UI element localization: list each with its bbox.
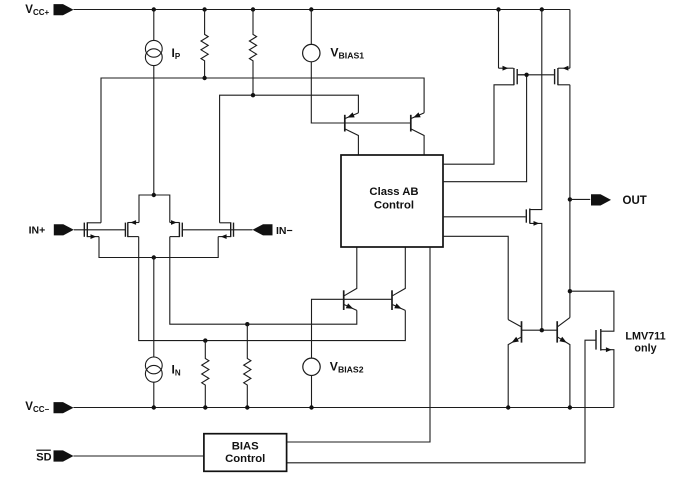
label BIAS Control [225, 440, 265, 465]
terminal VCC- [54, 402, 74, 413]
svg-text:BIAS: BIAS [232, 440, 259, 452]
svg-text:Control: Control [374, 199, 414, 211]
block Class AB Control [341, 155, 443, 247]
junction VCC- rail / Q6 emitter [568, 405, 572, 409]
junction P tail / IP [152, 193, 156, 197]
junction VCC+ rail / VBIAS1 [309, 7, 313, 11]
wire IN+ gate [74, 229, 126, 231]
wire node N4 (B drain / R3 / Q4 emitter) [139, 237, 406, 341]
terminal IN- [253, 224, 273, 235]
junction Q5/Q6 bases / M5 source [540, 328, 544, 332]
terminal OUT [591, 194, 611, 205]
mosfet M5 (floating buffer) [443, 10, 542, 331]
svg-text:Class AB: Class AB [369, 186, 418, 198]
wire gates to Class AB (port B) [443, 75, 527, 182]
wire OUT stub [570, 198, 590, 200]
terminal VCC+ [54, 4, 74, 15]
wire node N2 (D drain / R2 / Q1 emitter) [220, 95, 359, 223]
transistor Q2 (PNP) [411, 112, 424, 155]
junction N1 / R1 [202, 76, 206, 80]
wire M1/M2 gate line [517, 74, 554, 76]
mosfet C (IN- inner) [170, 220, 183, 237]
wire node N1 (A drain / R1 / Q2 emitter) [101, 78, 424, 223]
transistor Q4 (NPN) [392, 246, 405, 310]
mosfet B (IN+ inner) [125, 220, 139, 237]
junction VCC+ rail / M5 drain [540, 7, 544, 11]
svg-text:SD: SD [36, 451, 51, 463]
svg-text:IN−: IN− [276, 225, 293, 237]
junction VCC+ rail / R2 [251, 7, 255, 11]
label OUT [623, 195, 647, 207]
transistor Q5 (NPN output low-side left) [508, 320, 521, 408]
label SD (overline) [36, 450, 51, 463]
wire IN- gate [182, 229, 252, 231]
voltage source VBIAS2 [303, 358, 320, 407]
current source IP [145, 10, 162, 196]
svg-text:Control: Control [225, 453, 265, 465]
mosfet D (IN- outer) [218, 222, 233, 239]
label IN+ [29, 225, 46, 237]
svg-text:OUT: OUT [623, 195, 647, 207]
wire VBIAS2 to Q3/Q4 bases [312, 299, 393, 358]
net VCC+ rail wire [74, 9, 570, 11]
label IP [172, 46, 181, 61]
label VBIAS2 [330, 360, 364, 375]
label VCC+ [25, 4, 49, 17]
junction VCC- rail / VBIAS2 [309, 405, 313, 409]
junction N4 / R3 [203, 338, 207, 342]
resistor R4 [244, 324, 251, 407]
resistor R3 [202, 341, 209, 408]
wire VBIAS1 to Q1/Q2 bases [311, 62, 411, 123]
transistor Q3 (NPN) [344, 246, 357, 310]
label VCC- [25, 401, 49, 414]
junction OUT node [568, 197, 572, 201]
wire N-pair tail [99, 237, 218, 258]
junction VCC- rail / Q5 emitter [506, 405, 510, 409]
label IN&#8722; [276, 225, 293, 237]
junction N3 / R4 [245, 322, 249, 326]
resistor R1 [201, 10, 208, 79]
label IN (current source) [172, 362, 181, 377]
block BIAS Control [204, 434, 287, 472]
junction VCC- rail / IN [152, 405, 156, 409]
label Class AB Control [369, 186, 418, 211]
transistor Q6 (NPN output low-side right) [557, 318, 570, 408]
junction N2 / R2 [251, 93, 255, 97]
svg-text:only: only [634, 343, 656, 355]
junction VCC+ rail / R1 [202, 7, 206, 11]
current source IN [145, 258, 162, 408]
mosfet A (IN+ outer) [84, 222, 101, 239]
junction VCC- rail / R3 [203, 405, 207, 409]
wire BIAS to Class AB (port 1) [287, 247, 430, 442]
terminal IN+ [54, 224, 74, 235]
net VCC- rail wire [74, 407, 614, 409]
label LMV711 only [625, 330, 665, 354]
voltage source VBIAS1 [303, 10, 320, 62]
wire Mout drain link [570, 291, 614, 331]
transistor Q1 (PNP) [345, 112, 359, 155]
label VBIAS1 [330, 45, 364, 60]
resistor R2 [249, 10, 256, 96]
mosfet Mout (LMV711 only) [287, 329, 614, 463]
wire SD to BIAS [74, 455, 204, 457]
wire node N3 (C drain / R4 / Q3 emitter) [170, 237, 357, 325]
mosfet M2 (PMOS mirror right) [555, 10, 570, 86]
junction M1 gate / port B [524, 73, 528, 77]
junction VCC+ rail / M1 source [496, 7, 500, 11]
wire P-pair tail [139, 195, 170, 223]
junction OUT / Mout drain [568, 289, 572, 293]
mosfet M1 (PMOS mirror left) [443, 10, 527, 165]
wire OUT net vertical [569, 85, 571, 318]
svg-text:IN+: IN+ [29, 225, 46, 237]
terminal SD [54, 450, 74, 461]
wire Class AB to Q5 collector (port D) [443, 236, 508, 319]
svg-text:LMV711: LMV711 [625, 330, 665, 342]
junction VCC+ rail / IP [152, 7, 156, 11]
junction VCC- rail / R4 [245, 405, 249, 409]
junction N tail / IN [152, 255, 156, 259]
wire Q5/Q6 base line [522, 329, 558, 331]
